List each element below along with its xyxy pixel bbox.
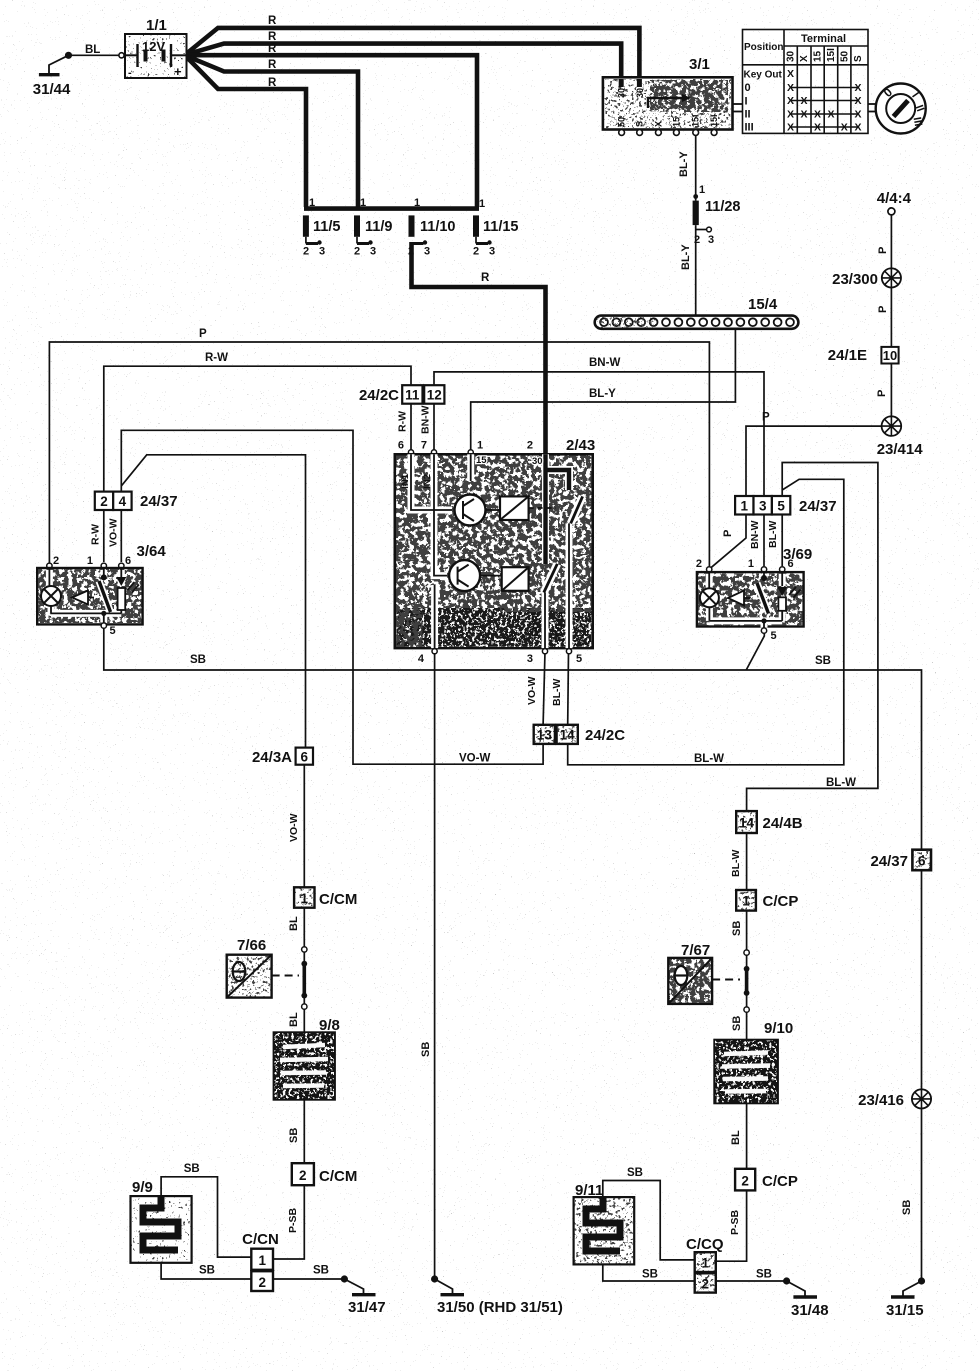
svg-text:SB: SB (642, 1269, 658, 1281)
svg-text:III: III (745, 122, 754, 134)
pin 5 of 3/69 (763, 621, 765, 628)
svg-text:X: X (787, 68, 794, 80)
splice 23/300 (832, 268, 901, 313)
wire P main horizontal (49, 342, 709, 569)
wire SB C/CP pin1 to thermal switch (746, 911, 748, 969)
svg-text:1: 1 (414, 197, 420, 209)
svg-text:15I: 15I (691, 114, 701, 127)
connector C/CP pin 2 (729, 1169, 798, 1235)
fuse 11/15 (473, 198, 519, 258)
svg-text:24/2C: 24/2C (359, 387, 399, 404)
svg-text:2: 2 (100, 494, 108, 509)
battery 1/1 (119, 17, 187, 79)
svg-text:2: 2 (408, 246, 414, 258)
terminal pins 3/1 bottom (617, 114, 720, 127)
svg-text:+: + (174, 64, 182, 79)
svg-text:BN-W: BN-W (420, 405, 432, 434)
svg-text:1: 1 (699, 184, 705, 196)
illumination arrow 3/64 (72, 591, 88, 605)
svg-text:R: R (268, 43, 277, 55)
svg-text:2: 2 (702, 1277, 710, 1292)
relay switch S2 (544, 564, 558, 593)
svg-text:1: 1 (477, 440, 483, 452)
svg-text:VO-W: VO-W (288, 813, 300, 842)
svg-text:2: 2 (303, 246, 309, 258)
connector C/CP pin 1 (731, 890, 798, 936)
switch blade 3/64 (101, 574, 107, 580)
connector 24/3A pin 6 (252, 748, 313, 842)
control module 2/43 (395, 437, 595, 665)
svg-text:X: X (799, 55, 810, 62)
svg-text:10: 10 (883, 348, 897, 363)
svg-text:9/9: 9/9 (132, 1179, 153, 1196)
wire P-SB C/CP pin2 to C/CQ pin1 (716, 1190, 747, 1261)
svg-text:VO-W: VO-W (108, 518, 120, 547)
svg-text:31/15: 31/15 (886, 1302, 924, 1319)
wire BL-Y ignition to fuse 11/28 (695, 134, 697, 200)
svg-text:2: 2 (354, 246, 360, 258)
svg-text:II: II (745, 109, 751, 121)
svg-text:I: I (745, 96, 748, 108)
svg-text:4/4:4: 4/4:4 (877, 190, 912, 207)
svg-text:BL-Y: BL-Y (678, 151, 690, 177)
wire P 23/414 to 24/37 pin1 (746, 426, 881, 496)
svg-text:2/43: 2/43 (566, 437, 595, 454)
bottom rail 3/64 (51, 612, 121, 614)
fuse 11/5 (303, 197, 341, 258)
wire SB C/CQ pin2 to ground 31/48 (716, 1280, 787, 1282)
wire fuse feed bus (304, 206, 479, 211)
svg-text:1: 1 (309, 197, 315, 209)
svg-text:24/37: 24/37 (870, 853, 908, 870)
svg-text:12: 12 (427, 388, 442, 403)
svg-text:BL-W: BL-W (551, 679, 563, 706)
wire SB heater 9/8 to C/CM pin2 (303, 1100, 305, 1164)
svg-text:P: P (877, 306, 889, 313)
svg-text:P: P (762, 412, 770, 424)
svg-text:BL-W: BL-W (826, 777, 856, 789)
wire VO-W 24/3A to C/CM (303, 765, 305, 888)
thermal switch right (731, 950, 749, 1031)
svg-text:R-W: R-W (205, 352, 228, 364)
svg-text:9/10: 9/10 (764, 1020, 793, 1037)
svg-text:SB: SB (190, 654, 206, 666)
ground 31/48 (783, 1277, 829, 1319)
heater element 9/10 (714, 1020, 793, 1103)
svg-text:1: 1 (479, 198, 485, 210)
svg-text:5: 5 (576, 653, 582, 665)
svg-text:S: S (635, 121, 645, 127)
svg-text:C/CP: C/CP (763, 893, 799, 910)
svg-text:7/66: 7/66 (237, 937, 266, 954)
svg-text:15: 15 (671, 117, 681, 127)
connector 24/37 pins 1 3 5 (right) (722, 496, 837, 566)
wire VO-W 24/37 pin4 loop to 24/2C pin13 (121, 430, 543, 764)
svg-text:12V: 12V (142, 39, 165, 54)
pin 5 of 3/64 (103, 613, 105, 622)
svg-text:5: 5 (771, 630, 777, 642)
wire right column 4/4:4 to 23/300 (890, 215, 892, 269)
svg-text:2: 2 (694, 234, 700, 246)
svg-text:30: 30 (532, 456, 543, 467)
svg-text:1: 1 (301, 891, 309, 906)
wire R fuse 11/10 to 2/43 pin2 (412, 242, 546, 454)
svg-text:OUT1: OUT1 (530, 611, 541, 637)
wire labels R (268, 15, 490, 284)
heater element 9/11 (574, 1182, 635, 1264)
svg-text:7/67: 7/67 (681, 942, 710, 959)
wire R-W 3/64 pin1 to 24/2C pin11 (104, 366, 411, 491)
svg-text:3: 3 (489, 246, 495, 258)
2/43 internal input lines (411, 454, 569, 648)
connector 24/37 pin 6 (right) (870, 850, 931, 871)
svg-text:SB: SB (901, 1200, 913, 1215)
bottom rail 3/69 (709, 620, 782, 622)
splice 23/416 (858, 1089, 931, 1215)
svg-text:2: 2 (473, 246, 479, 258)
connector 24/4B pin 14 (730, 811, 803, 877)
heater element 9/9 (131, 1179, 192, 1263)
svg-text:30: 30 (635, 88, 645, 98)
svg-text:IN2: IN2 (422, 474, 433, 489)
svg-text:P: P (722, 530, 734, 537)
svg-text:3: 3 (759, 499, 767, 514)
wire SB 2/43 pin4 to ground 31/50 (434, 652, 436, 1280)
wire labels upper mid (199, 328, 620, 400)
wire R battery to fuse 11/15 (186, 55, 477, 207)
svg-text:P: P (199, 328, 207, 340)
svg-text:1: 1 (360, 197, 366, 209)
svg-text:31/48: 31/48 (791, 1302, 829, 1319)
svg-text:SB: SB (731, 921, 743, 936)
svg-text:14: 14 (739, 816, 755, 831)
svg-text:R: R (481, 272, 490, 284)
svg-text:-: - (128, 67, 132, 79)
svg-text:1: 1 (702, 1256, 710, 1271)
svg-text:VO-W: VO-W (526, 676, 538, 705)
svg-text:15I: 15I (826, 48, 837, 62)
relay switch S1 (571, 496, 583, 523)
svg-text:P-SB: P-SB (729, 1209, 741, 1235)
svg-text:C/CM: C/CM (319, 891, 357, 908)
wire P 24/37 pin1 to 3/69 pin2 (709, 515, 746, 569)
connector 24/37 pins 2 4 (left) (90, 492, 178, 562)
svg-text:SB: SB (420, 1042, 432, 1057)
svg-text:6: 6 (301, 750, 309, 765)
wire BL-Y 2/43 pin1 to bus 15/4 (471, 329, 736, 455)
svg-text:BL: BL (85, 44, 100, 56)
2/43 bottom pins (432, 649, 437, 654)
svg-text:3: 3 (370, 246, 376, 258)
svg-text:11/10: 11/10 (420, 219, 456, 235)
svg-text:BN-W: BN-W (589, 357, 620, 369)
wire BL-W 24/4B to C/CP pin1 (746, 833, 748, 890)
svg-text:Position: Position (744, 42, 783, 53)
svg-text:SB: SB (731, 1016, 743, 1031)
svg-text:BL-Y: BL-Y (589, 388, 616, 400)
switch blade 3/69 (761, 575, 767, 581)
thermostat 7/67 (668, 942, 740, 1004)
svg-text:14: 14 (560, 728, 576, 743)
wire P 24/1E to 23/414 (890, 363, 892, 417)
connector C/CN pins 1 2 (242, 1231, 279, 1291)
resistor + diode 3/64 (120, 568, 122, 577)
svg-text:SB: SB (184, 1163, 200, 1175)
resistor + diode 3/69 (781, 572, 783, 586)
svg-text:BL-W: BL-W (730, 850, 742, 877)
svg-text:R: R (268, 59, 277, 71)
ground 31/50 (420, 1042, 563, 1316)
svg-text:15: 15 (813, 50, 824, 62)
wire BL heater 9/10 to C/CP pin2 (746, 1103, 748, 1169)
svg-text:S: S (853, 55, 864, 62)
svg-text:24/2C: 24/2C (585, 727, 625, 744)
wire SB heater 9/9 top to C/CN pin1 (161, 1177, 251, 1257)
wire BL C/CM to thermal switch (303, 908, 305, 964)
svg-text:15: 15 (476, 455, 487, 466)
svg-text:11/15: 11/15 (483, 219, 519, 235)
svg-text:C/CQ: C/CQ (686, 1236, 724, 1253)
connector 24/2C pins 13 14 (526, 676, 625, 744)
svg-text:24/3A: 24/3A (252, 749, 292, 766)
svg-text:R: R (268, 31, 277, 43)
svg-text:P-SB: P-SB (287, 1207, 299, 1233)
connector 24/2C pins 11 12 (359, 385, 444, 450)
svg-text:24/1E: 24/1E (828, 347, 867, 364)
svg-text:BL: BL (288, 1012, 300, 1027)
svg-text:23/416: 23/416 (858, 1092, 904, 1109)
svg-text:2: 2 (258, 1275, 266, 1290)
svg-text:6: 6 (788, 558, 794, 570)
svg-text:3/64: 3/64 (137, 543, 167, 560)
svg-text:1: 1 (748, 558, 754, 570)
svg-text:Terminal: Terminal (801, 33, 846, 45)
wire P 23/300 to 24/1E (890, 288, 892, 347)
svg-text:5: 5 (777, 499, 785, 514)
svg-text:11: 11 (405, 388, 420, 403)
svg-text:1: 1 (87, 555, 93, 567)
svg-text:P: P (877, 247, 889, 254)
connector C/CM pin 2 (287, 1163, 357, 1233)
wire SB thermal switch to heater 9/10 (746, 993, 748, 1040)
svg-text:SB: SB (627, 1167, 643, 1179)
svg-text:SB: SB (199, 1265, 215, 1277)
svg-text:1/1: 1/1 (146, 17, 167, 34)
ground 31/15 (886, 1277, 925, 1319)
illumination arrow 3/69 (728, 591, 744, 606)
fuse 11/9 (354, 197, 392, 258)
svg-text:R-W: R-W (90, 524, 102, 545)
svg-text:31/44: 31/44 (33, 81, 71, 98)
svg-text:VO-W: VO-W (459, 753, 490, 765)
svg-text:6: 6 (398, 440, 404, 452)
svg-text:13: 13 (537, 728, 553, 743)
svg-text:31/50 (RHD 31/51): 31/50 (RHD 31/51) (437, 1299, 563, 1316)
transistor Q1 (455, 495, 486, 526)
switch 3/64 (37, 543, 166, 637)
wire BL-W 2/43 pin5 to 24/2C pin14 (567, 652, 570, 725)
svg-text:24/37: 24/37 (140, 493, 178, 510)
svg-text:BN-W: BN-W (749, 520, 761, 549)
svg-text:30: 30 (617, 88, 627, 98)
svg-text:3: 3 (708, 234, 714, 246)
svg-text:SB: SB (288, 1128, 300, 1143)
svg-text:1: 1 (741, 499, 749, 514)
svg-text:2: 2 (696, 558, 702, 570)
svg-text:SB: SB (815, 655, 831, 667)
2/43 relay contact 30 feed (544, 460, 583, 593)
svg-text:3: 3 (319, 246, 325, 258)
svg-text:P: P (876, 390, 888, 397)
thermostat 7/66 (227, 937, 299, 998)
svg-text:15I: 15I (709, 114, 719, 127)
wire P-SB C/CM pin2 to C/CN pin1 (273, 1185, 304, 1259)
wire R battery to ignition terminal 30 right (186, 28, 639, 79)
svg-text:6: 6 (918, 854, 926, 869)
relay coil K2 (480, 567, 529, 591)
wire SB right column 24/37 pin6 to ground 31/15 (921, 870, 923, 1281)
ignition position table (743, 30, 869, 134)
svg-text:24/37: 24/37 (799, 498, 837, 515)
svg-text:5: 5 (110, 625, 116, 637)
svg-text:3: 3 (424, 246, 430, 258)
wire BL-Y fuse 11/28 to bus 15/4 (695, 225, 697, 316)
svg-text:IN1: IN1 (400, 473, 411, 489)
wire BL thermal switch to heater 9/8 (303, 996, 305, 1033)
wire SB heater 9/11 top to C/CQ pin1 (603, 1181, 695, 1260)
svg-text:1: 1 (258, 1253, 266, 1268)
svg-text:C/CP: C/CP (762, 1173, 798, 1190)
svg-text:3/1: 3/1 (689, 56, 710, 73)
svg-text:23/414: 23/414 (877, 441, 924, 458)
wire BL-W 3/69 diagonal lower route to 24/2C pin14 (568, 479, 844, 765)
svg-text:23/300: 23/300 (832, 271, 878, 288)
svg-text:7: 7 (421, 440, 427, 452)
relay coil K1 (486, 496, 557, 520)
connector 24/1E pin 10 (828, 347, 899, 397)
wire VO-W 2/43 pin3 to 24/2C pin13 (543, 652, 545, 725)
wire VO-W branch to seat heater left (121, 455, 305, 748)
splice 23/414 (762, 412, 923, 459)
switch 3/69 (696, 546, 812, 642)
table contact marks (787, 68, 862, 134)
svg-text:2: 2 (527, 440, 533, 452)
svg-text:SB: SB (313, 1265, 329, 1277)
svg-text:X: X (653, 121, 663, 127)
svg-text:50: 50 (839, 50, 850, 62)
svg-text:15/4: 15/4 (748, 296, 778, 313)
svg-text:SB: SB (756, 1269, 772, 1281)
svg-text:11/28: 11/28 (705, 199, 741, 215)
wire SB 3/69 pin5 diagonal (746, 633, 764, 670)
lamp in 3/64 (41, 568, 61, 613)
lamp in 3/69 (700, 572, 719, 621)
svg-text:31/47: 31/47 (348, 1299, 386, 1316)
svg-text:R: R (268, 15, 277, 27)
svg-text:BL: BL (730, 1130, 742, 1145)
node 4/4:4 (877, 190, 912, 254)
svg-text:C/CN: C/CN (242, 1231, 279, 1248)
ground 31/47 (341, 1275, 386, 1316)
svg-text:Key Out: Key Out (744, 70, 783, 81)
bus bar 15/4 (595, 296, 799, 329)
heater element 9/8 (274, 1017, 340, 1100)
svg-text:11/9: 11/9 (365, 219, 392, 235)
wire SB heater 9/9 bottom to C/CN pin2 (161, 1263, 251, 1279)
wire R battery to ignition terminal 30 left (186, 44, 621, 79)
connector C/CM pin 1 (288, 887, 357, 931)
wire BL battery to ground 31/44 (71, 54, 119, 56)
svg-text:BL-Y: BL-Y (680, 244, 692, 270)
svg-text:3: 3 (527, 653, 533, 665)
thermal switch left (288, 947, 307, 1027)
svg-text:4: 4 (119, 494, 127, 509)
connector C/CQ pins 1 2 (686, 1236, 724, 1293)
svg-text:50: 50 (617, 117, 627, 127)
ground 31/44 (33, 44, 101, 98)
fuse 11/10 (408, 197, 456, 258)
svg-text:BL-W: BL-W (767, 521, 779, 548)
key symbol (868, 84, 926, 134)
svg-text:BL-W: BL-W (694, 753, 724, 765)
wire SB main horizontal (104, 626, 922, 850)
svg-text:OUT2: OUT2 (554, 612, 565, 637)
wire SB heater 9/11 bottom to C/CQ pin2 (603, 1264, 695, 1281)
svg-text:BL: BL (288, 916, 300, 931)
wire R battery to fuse 11/9 (186, 56, 358, 207)
wire R battery to fuse 11/5 (186, 56, 306, 207)
svg-text:R-W: R-W (397, 411, 409, 432)
wire BL-W 3/69 pin6 feed upper route (747, 463, 878, 812)
svg-text:2: 2 (53, 555, 59, 567)
svg-text:R: R (268, 77, 277, 89)
svg-text:C/CM: C/CM (319, 1168, 357, 1185)
key arrow inside 3/1 (648, 98, 682, 108)
svg-text:2: 2 (741, 1174, 749, 1189)
svg-text:0: 0 (745, 82, 751, 94)
svg-text:2: 2 (299, 1168, 307, 1183)
svg-text:24/4B: 24/4B (763, 815, 803, 832)
svg-text:1: 1 (742, 894, 750, 909)
fuse 11/28 (678, 151, 741, 270)
wire SB C/CN pin2 to ground 31/47 (273, 1278, 344, 1280)
svg-text:11/5: 11/5 (313, 219, 340, 235)
svg-text:6: 6 (125, 555, 131, 567)
svg-text:4: 4 (418, 653, 425, 665)
svg-text:30: 30 (786, 50, 797, 62)
wire BN-W 24/2C pin12 to 3/69 pin1 (434, 372, 764, 496)
transistor Q2 (449, 560, 480, 591)
2/43 internal pin labels (400, 455, 565, 637)
ignition switch 3/1 (603, 56, 743, 135)
